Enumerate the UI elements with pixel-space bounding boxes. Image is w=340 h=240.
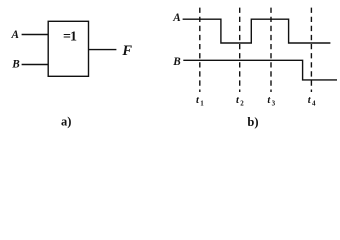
svg-text:3: 3	[272, 100, 276, 108]
svg-text:2: 2	[240, 100, 244, 108]
wire input B	[22, 64, 49, 66]
svg-text:B: B	[11, 58, 20, 70]
svg-text:A: A	[11, 29, 19, 41]
wire input A	[22, 34, 49, 36]
time label t1	[196, 95, 204, 107]
svg-text:F: F	[121, 43, 132, 59]
wire output F	[89, 49, 117, 51]
time label t4	[308, 95, 316, 107]
time label t3	[267, 95, 275, 107]
waveform A	[183, 19, 331, 43]
svg-text:B: B	[172, 56, 181, 68]
time marker t4 dashed line	[310, 8, 312, 92]
waveform B	[183, 60, 337, 80]
svg-text:=1: =1	[63, 30, 77, 45]
time marker t2 dashed line	[239, 8, 241, 92]
XOR gate U1 body	[48, 21, 88, 76]
svg-text:a): a)	[61, 114, 71, 128]
time marker t3 dashed line	[270, 8, 272, 92]
svg-text:A: A	[172, 12, 180, 24]
svg-text:b): b)	[247, 115, 258, 129]
time marker t1 dashed line	[199, 8, 201, 92]
time label t2	[236, 95, 244, 107]
svg-text:4: 4	[312, 100, 316, 108]
svg-text:1: 1	[200, 100, 204, 108]
